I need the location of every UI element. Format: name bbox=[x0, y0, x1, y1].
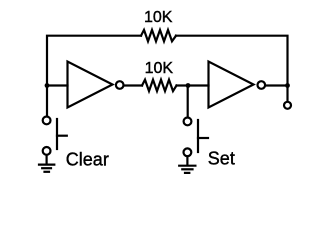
wire U1 output to R2 bbox=[124, 84, 142, 86]
wire S2 to ground bbox=[186, 156, 188, 165]
wire node A down to Clear switch bbox=[46, 86, 48, 117]
wire top feedback right segment bbox=[176, 36, 288, 86]
svg-text:Clear: Clear bbox=[66, 150, 109, 170]
op-amp U2 inverter triangle bbox=[209, 62, 254, 108]
switch S1 Clear bottom contact bbox=[43, 147, 51, 155]
switch S1 actuator stub bbox=[57, 135, 67, 137]
switch S2 actuator stub bbox=[198, 137, 208, 139]
node Q junction dot bbox=[285, 83, 290, 88]
node B junction dot bbox=[186, 83, 191, 88]
switch S2 Set bottom contact bbox=[184, 148, 192, 156]
node A junction dot bbox=[45, 83, 50, 88]
ground (Set) bbox=[179, 165, 195, 167]
switch S1 Clear top contact bbox=[43, 117, 51, 125]
switch S1 actuator bar bbox=[56, 119, 58, 149]
wire S1 to ground bbox=[45, 155, 47, 164]
wire U2 output to node Q bbox=[266, 84, 288, 86]
resistor R2 10K (middle) bbox=[142, 80, 177, 91]
terminal output circle bbox=[284, 102, 291, 109]
wire R2 to inverter U2 bbox=[177, 84, 209, 86]
op-amp U1 inverter triangle bbox=[68, 62, 113, 108]
svg-text:10K: 10K bbox=[145, 60, 174, 77]
bubble U2 output bbox=[258, 81, 266, 89]
wire top feedback left segment bbox=[47, 36, 141, 86]
switch S2 actuator bar bbox=[197, 120, 199, 152]
ground (Clear) bbox=[39, 164, 54, 166]
wire input node to inverter U1 bbox=[47, 84, 68, 86]
svg-text:10K: 10K bbox=[144, 9, 173, 26]
bubble U1 output bbox=[116, 81, 124, 89]
wire node B down to Set switch bbox=[187, 86, 189, 118]
svg-text:Set: Set bbox=[208, 149, 235, 169]
switch S2 Set top contact bbox=[184, 118, 192, 126]
resistor R1 10K (top) bbox=[141, 30, 176, 41]
wire output stub down bbox=[286, 86, 288, 102]
